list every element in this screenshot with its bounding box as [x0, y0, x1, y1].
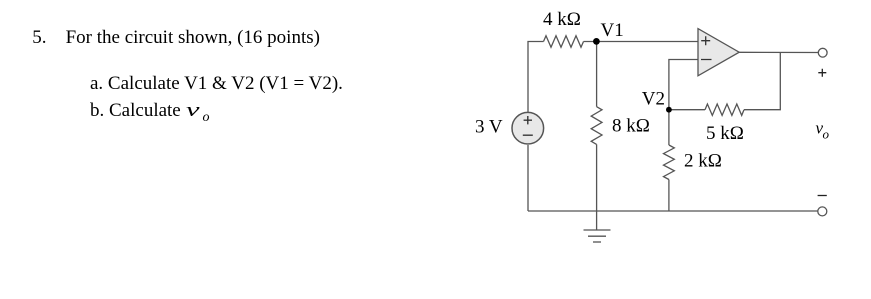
label vo output voltage [816, 118, 830, 141]
label 4 kOhm [543, 9, 581, 30]
wire: source bottom to bottom rail [527, 145, 529, 211]
svg-text:8 kΩ: 8 kΩ [612, 116, 650, 137]
label + of output [818, 69, 826, 77]
op-amp U1 [698, 29, 739, 76]
voltage source VS 3V [512, 112, 544, 144]
svg-text:5 kΩ: 5 kΩ [706, 123, 744, 144]
label 8 kOhm [612, 116, 650, 137]
wire: 5k to feedback riser [744, 52, 780, 109]
resistor R 8k zigzag [591, 107, 602, 145]
ground [584, 230, 611, 242]
wire: 2k bottom to rail [668, 180, 670, 212]
part a [90, 74, 343, 93]
problem statement [66, 28, 320, 47]
svg-text:2 kΩ: 2 kΩ [684, 151, 722, 172]
node V2 junction dot [666, 107, 672, 113]
label V1 [601, 20, 624, 41]
label 2 kOhm [684, 151, 722, 172]
wire: V2 node down to 2k resistor [668, 110, 670, 145]
wire: op-amp minus input to V2 [669, 60, 698, 110]
svg-text:3 V: 3 V [475, 116, 503, 137]
problem number [32, 28, 46, 47]
wire: 4k to V1 node to op-amp + input [584, 41, 699, 43]
wire: V2 node to 5k resistor [669, 109, 705, 111]
svg-text:V1: V1 [601, 20, 624, 41]
wire: op-amp output to + terminal [739, 51, 818, 53]
label 5 kOhm [706, 123, 744, 144]
terminal - output [818, 207, 827, 216]
wire: bottom rail [528, 210, 818, 212]
wire: top-left corner to 4k resistor [528, 42, 544, 113]
node V1 junction dot [593, 38, 600, 45]
label - of output [818, 195, 827, 197]
resistor R 2k zigzag [664, 145, 675, 180]
label V2 [642, 89, 665, 110]
wire: V1 node down to 8k resistor [596, 42, 598, 107]
wire: 8k bottom through rail to ground [596, 144, 598, 230]
resistor R 4k zigzag [544, 36, 584, 47]
svg-text:4 kΩ: 4 kΩ [543, 9, 581, 30]
resistor R 5k zigzag [705, 104, 744, 115]
part b [90, 101, 209, 120]
svg-text:V2: V2 [642, 89, 665, 110]
terminal + output [818, 48, 827, 57]
svg-text:o: o [823, 127, 830, 142]
label 3 V [475, 116, 503, 137]
